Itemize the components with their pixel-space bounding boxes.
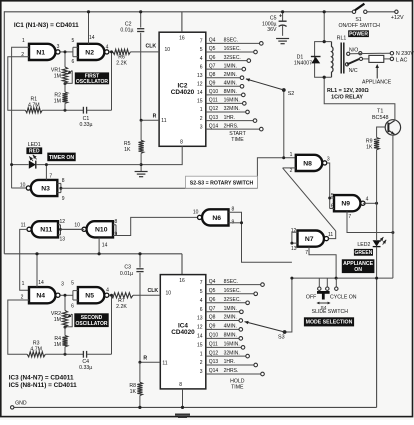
svg-text:10: 10 [74, 222, 80, 228]
svg-text:1K: 1K [130, 389, 137, 395]
svg-text:C1: C1 [83, 116, 90, 122]
svg-text:13: 13 [197, 316, 203, 322]
svg-text:TIME: TIME [231, 385, 244, 391]
svg-text:Q11: Q11 [209, 342, 218, 348]
svg-text:OSCILLATOR: OSCILLATOR [75, 321, 107, 327]
svg-text:CYCLE ON: CYCLE ON [330, 294, 357, 300]
svg-text:C2: C2 [125, 21, 132, 27]
svg-text:4: 4 [200, 56, 203, 62]
svg-text:START: START [229, 131, 246, 137]
svg-text:5: 5 [200, 47, 203, 53]
svg-text:R: R [143, 355, 147, 361]
svg-text:TIME: TIME [231, 137, 244, 143]
svg-text:Q9: Q9 [209, 81, 216, 87]
svg-text:8SEC.: 8SEC. [224, 38, 238, 44]
svg-text:5: 5 [72, 38, 75, 44]
svg-text:5: 5 [71, 281, 74, 287]
svg-text:Q7: Q7 [209, 63, 216, 69]
svg-text:6: 6 [71, 304, 74, 310]
svg-text:RED: RED [29, 149, 40, 155]
svg-text:3: 3 [200, 369, 203, 375]
svg-text:TIMER ON: TIMER ON [49, 155, 75, 161]
svg-text:T1: T1 [377, 108, 383, 114]
svg-text:8: 8 [179, 382, 182, 388]
svg-text:2HRS.: 2HRS. [224, 123, 239, 129]
svg-text:15: 15 [197, 99, 203, 105]
svg-text:14: 14 [89, 35, 95, 41]
svg-text:Q8: Q8 [209, 315, 216, 321]
svg-text:16SEC.: 16SEC. [224, 288, 241, 294]
svg-text:4: 4 [106, 288, 109, 294]
svg-text:Q14: Q14 [209, 368, 219, 374]
svg-text:OSCILLATOR: OSCILLATOR [76, 79, 108, 85]
svg-text:4: 4 [106, 44, 109, 50]
svg-text:8: 8 [115, 219, 118, 225]
svg-text:0.33µ: 0.33µ [79, 122, 92, 128]
svg-text:7: 7 [49, 174, 52, 180]
svg-text:Q6: Q6 [209, 297, 216, 303]
svg-text:2: 2 [21, 294, 24, 300]
svg-text:Q5: Q5 [209, 46, 216, 52]
svg-text:C3: C3 [124, 265, 131, 271]
svg-text:1: 1 [200, 107, 203, 113]
svg-text:4MIN.: 4MIN. [224, 324, 237, 330]
svg-text:Q14: Q14 [209, 123, 219, 129]
svg-text:1K: 1K [366, 145, 373, 151]
svg-text:16SEC.: 16SEC. [224, 46, 241, 52]
svg-text:Q7: Q7 [209, 306, 216, 312]
svg-text:10: 10 [165, 47, 171, 53]
svg-text:2.2K: 2.2K [116, 61, 127, 67]
svg-text:Q4: Q4 [209, 38, 216, 44]
svg-text:POWER: POWER [349, 32, 368, 38]
svg-text:8: 8 [62, 178, 65, 184]
svg-text:6: 6 [200, 307, 203, 313]
svg-text:1K: 1K [124, 147, 131, 153]
svg-text:1M: 1M [54, 98, 61, 104]
svg-text:8SEC.: 8SEC. [224, 279, 238, 285]
svg-text:12: 12 [60, 219, 66, 225]
svg-text:N11: N11 [40, 227, 52, 234]
svg-text:CD4020: CD4020 [171, 329, 195, 336]
svg-text:BC548: BC548 [372, 115, 388, 121]
svg-text:ON: ON [354, 267, 362, 273]
svg-text:0.01µ: 0.01µ [120, 28, 133, 34]
svg-text:N/O: N/O [349, 47, 358, 53]
svg-text:32SEC.: 32SEC. [224, 297, 241, 303]
svg-text:Q8: Q8 [209, 72, 216, 78]
svg-text:CLK: CLK [147, 288, 158, 294]
svg-text:IC1 (N1-N3) = CD4011: IC1 (N1-N3) = CD4011 [14, 22, 79, 29]
svg-text:CLK: CLK [145, 44, 156, 50]
svg-text:L AC: L AC [396, 58, 408, 64]
svg-text:1: 1 [290, 152, 293, 158]
svg-text:4.7M: 4.7M [30, 347, 42, 353]
svg-text:11: 11 [161, 118, 166, 124]
svg-text:10: 10 [193, 210, 199, 216]
svg-text:Q5: Q5 [209, 288, 216, 294]
svg-text:0.33µ: 0.33µ [79, 365, 92, 371]
svg-text:9: 9 [62, 196, 65, 202]
svg-text:4.7M: 4.7M [28, 102, 40, 108]
svg-text:APPLIANCE: APPLIANCE [362, 79, 392, 85]
svg-text:11: 11 [162, 360, 167, 366]
svg-text:2.2K: 2.2K [116, 304, 127, 310]
svg-text:2MIN.: 2MIN. [224, 315, 237, 321]
svg-text:N3: N3 [41, 185, 50, 192]
svg-text:S3: S3 [278, 335, 285, 341]
svg-text:14: 14 [197, 90, 203, 96]
svg-text:Q11: Q11 [209, 98, 218, 104]
svg-text:1HR.: 1HR. [224, 115, 235, 121]
svg-text:2: 2 [200, 360, 203, 366]
svg-text:Q9: Q9 [209, 324, 216, 330]
svg-text:1MIN.: 1MIN. [224, 306, 237, 312]
svg-text:RL1 = 12V, 200Ω: RL1 = 12V, 200Ω [327, 88, 369, 94]
svg-text:1HR.: 1HR. [224, 359, 235, 365]
svg-text:32MIN.: 32MIN. [224, 350, 240, 356]
svg-text:ON/OFF SWITCH: ON/OFF SWITCH [338, 23, 380, 29]
svg-text:CD4020: CD4020 [171, 89, 195, 96]
svg-text:R: R [153, 113, 157, 119]
svg-text:APPLIANCE: APPLIANCE [343, 261, 374, 267]
svg-text:SLIDE SWITCH: SLIDE SWITCH [312, 309, 349, 315]
svg-text:8MIN.: 8MIN. [224, 89, 237, 95]
svg-text:GND: GND [15, 401, 27, 407]
svg-text:N4: N4 [36, 293, 45, 300]
svg-text:3: 3 [327, 157, 330, 163]
svg-text:Q13: Q13 [209, 359, 219, 365]
svg-text:Q6: Q6 [209, 55, 216, 61]
svg-text:GREEN: GREEN [355, 250, 373, 256]
svg-text:N10: N10 [95, 227, 108, 234]
svg-text:+12V: +12V [391, 15, 404, 21]
svg-text:4MIN.: 4MIN. [224, 81, 237, 87]
svg-text:32MIN.: 32MIN. [224, 106, 240, 112]
svg-text:1M: 1M [54, 342, 61, 348]
svg-text:2: 2 [200, 116, 203, 122]
svg-text:1MIN.: 1MIN. [224, 63, 237, 69]
svg-text:OFF: OFF [306, 294, 316, 300]
svg-text:8: 8 [232, 206, 235, 212]
svg-text:32SEC.: 32SEC. [224, 55, 241, 61]
svg-text:HOLD: HOLD [230, 379, 245, 385]
svg-text:7: 7 [348, 214, 351, 220]
svg-text:6: 6 [72, 59, 75, 65]
svg-text:15: 15 [197, 343, 203, 349]
svg-text:14: 14 [102, 243, 108, 249]
svg-text:4: 4 [200, 298, 203, 304]
svg-text:6: 6 [200, 64, 203, 70]
svg-text:C4: C4 [82, 359, 89, 365]
svg-text:11: 11 [21, 222, 26, 228]
svg-text:1: 1 [200, 351, 203, 357]
svg-text:N/C: N/C [349, 68, 358, 74]
svg-text:7: 7 [200, 280, 203, 286]
svg-text:Q10: Q10 [209, 333, 219, 339]
svg-text:11: 11 [328, 232, 333, 238]
svg-text:S2: S2 [288, 91, 295, 97]
svg-text:3: 3 [57, 44, 60, 50]
svg-text:N2: N2 [85, 49, 94, 56]
svg-text:1M: 1M [54, 74, 61, 80]
svg-text:16MIN.: 16MIN. [224, 342, 240, 348]
svg-text:1: 1 [22, 38, 25, 44]
svg-text:N8: N8 [303, 160, 312, 167]
svg-text:7: 7 [305, 250, 308, 256]
svg-text:N7: N7 [305, 236, 314, 243]
svg-text:IC5 (N8-N11) = CD4011: IC5 (N8-N11) = CD4011 [9, 382, 77, 389]
svg-text:16MIN.: 16MIN. [224, 98, 240, 104]
svg-text:0.01µ: 0.01µ [120, 271, 133, 277]
svg-text:1M: 1M [54, 317, 61, 323]
svg-text:10: 10 [166, 290, 172, 296]
svg-text:16: 16 [179, 35, 185, 41]
svg-text:16: 16 [179, 278, 185, 284]
svg-text:IC3 (N4-N7) = CD4011: IC3 (N4-N7) = CD4011 [9, 374, 74, 381]
svg-text:MODE SELECTION: MODE SELECTION [306, 320, 353, 326]
svg-text:8: 8 [180, 140, 183, 146]
svg-text:13: 13 [197, 73, 203, 79]
svg-text:7: 7 [200, 39, 203, 45]
svg-text:Q13: Q13 [209, 115, 219, 121]
svg-text:2MIN.: 2MIN. [224, 72, 237, 78]
svg-text:LED2: LED2 [357, 242, 370, 248]
svg-text:13: 13 [291, 246, 297, 252]
svg-text:LED1: LED1 [28, 142, 41, 148]
svg-text:N6: N6 [212, 215, 221, 222]
svg-text:N1: N1 [36, 49, 45, 56]
svg-text:3: 3 [61, 282, 64, 288]
svg-text:1C/O RELAY: 1C/O RELAY [331, 94, 363, 100]
svg-text:12: 12 [197, 82, 203, 88]
svg-text:+: + [279, 13, 282, 19]
svg-text:Q12: Q12 [209, 350, 219, 356]
svg-text:2HRS.: 2HRS. [224, 368, 239, 374]
svg-text:2: 2 [290, 168, 293, 174]
svg-text:13: 13 [60, 237, 66, 243]
svg-text:N5: N5 [85, 293, 94, 300]
svg-text:Q10: Q10 [209, 89, 219, 95]
svg-text:RL1: RL1 [337, 36, 347, 42]
svg-text:1N4007: 1N4007 [294, 61, 312, 67]
svg-text:4: 4 [366, 196, 369, 202]
svg-text:14: 14 [38, 280, 44, 286]
svg-text:N9: N9 [341, 201, 350, 208]
svg-text:12: 12 [197, 325, 203, 331]
svg-text:8MIN.: 8MIN. [224, 333, 237, 339]
svg-text:1: 1 [22, 281, 25, 287]
svg-text:N 230V: N 230V [396, 51, 414, 57]
svg-text:3: 3 [200, 124, 203, 130]
svg-text:14: 14 [197, 334, 203, 340]
svg-text:S2-S3 = ROTARY SWITCH: S2-S3 = ROTARY SWITCH [190, 180, 254, 186]
svg-text:Q4: Q4 [209, 279, 216, 285]
svg-text:10: 10 [20, 182, 26, 188]
svg-text:5: 5 [200, 289, 203, 295]
svg-text:36V: 36V [267, 27, 277, 33]
svg-text:Q12: Q12 [209, 106, 219, 112]
